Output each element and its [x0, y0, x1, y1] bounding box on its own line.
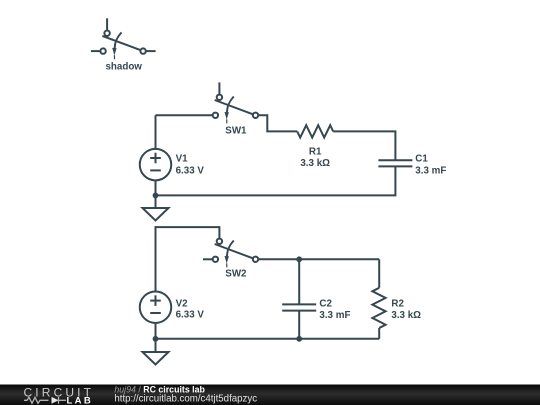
svg-text:http://circuitlab.com/c4tjt5df: http://circuitlab.com/c4tjt5dfapzyc — [114, 394, 257, 405]
svg-text:3.3 kΩ: 3.3 kΩ — [391, 310, 421, 321]
svg-text:SW2: SW2 — [225, 269, 247, 280]
svg-text:LAB: LAB — [67, 395, 91, 405]
svg-text:3.3 mF: 3.3 mF — [415, 165, 446, 176]
svg-text:3.3 kΩ: 3.3 kΩ — [300, 158, 330, 169]
svg-text:3.3 mF: 3.3 mF — [319, 310, 350, 321]
svg-text:V2: V2 — [176, 298, 189, 309]
svg-text:shadow: shadow — [105, 62, 142, 73]
svg-text:6.33 V: 6.33 V — [176, 165, 205, 176]
svg-text:R1: R1 — [309, 146, 322, 157]
svg-text:C2: C2 — [319, 298, 332, 309]
svg-text:R2: R2 — [391, 298, 404, 309]
svg-text:V1: V1 — [176, 154, 189, 165]
svg-text:6.33 V: 6.33 V — [176, 309, 205, 320]
svg-text:C1: C1 — [415, 154, 428, 165]
svg-text:SW1: SW1 — [225, 125, 247, 136]
